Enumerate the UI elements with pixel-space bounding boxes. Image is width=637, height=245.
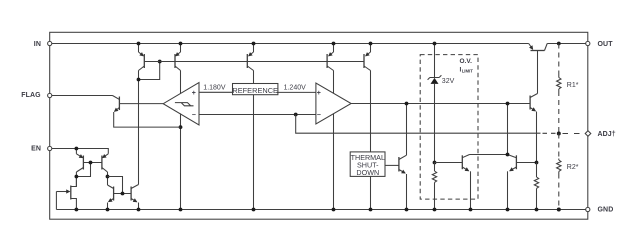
node Q7 collector on output line [405,102,409,106]
node Q2 emitter on rail [179,42,183,46]
wire zener tap to Q10 base [435,162,463,164]
svg-text:FLAG: FLAG [21,92,41,99]
svg-text:R2*: R2* [567,164,579,171]
node Q8 emitter resistor tap [535,161,539,165]
wire Q1 collector / mirror line down [138,71,140,185]
svg-text:−: − [192,112,196,119]
node NPN mirror bases [121,192,125,196]
wire GND rail [56,209,587,211]
wire Q6 emitter down and right to tail [114,112,181,127]
node Q15 emitter at rail [137,208,141,212]
node OUT junction for divider [557,42,561,46]
pin IN [48,41,52,45]
wire Q1 base-collector diode loop [139,62,160,80]
transistor Q15 (NPN bias mirror slave) [130,187,132,201]
resistor R4 (driver emitter) [536,163,538,178]
node Q1 collector junction [137,78,141,82]
node Q1 emitter on rail [137,42,141,46]
transistor Q2 (PNP mirror, feeds comparator) [180,44,182,53]
transistor Q7 (NPN driver clamp) [398,157,400,172]
svg-text:R1*: R1* [567,82,579,89]
svg-text:−: − [317,112,321,119]
wire Q11 base to pass base divider [516,162,536,164]
transistor Q14 (NPN bias mirror master) [113,187,115,201]
node zener top on rail [433,42,437,46]
transistor Q13 (PNP EN mirror slave) [103,154,109,158]
svg-text:32V: 32V [442,78,455,85]
transistor Q8 (NPN output driver) [529,96,531,110]
transistor Q5 (PNP, feeds thermal shutdown) [370,44,372,53]
wire PNP base bus [144,61,363,63]
resistor R2* (external divider, dashed string) [558,134,560,159]
svg-text:ADJ†: ADJ† [598,131,616,138]
wire U1 plus input (1.180V) [199,91,233,93]
wire Q12 base to Q13 base [83,162,102,164]
reference box U3 [233,84,278,95]
transistor Q4 (PNP, feeds error amp) [333,44,335,53]
wire OUT segment [547,43,588,45]
svg-text:DOWN: DOWN [356,168,379,177]
node tail / flag emitter junction [179,125,183,129]
node base loop junction [158,60,162,64]
svg-text:+: + [192,90,196,97]
pin EN [48,146,52,150]
transistor Q9 (PNP pass transistor) [531,50,545,52]
O.V. / I LIMIT dashed box [420,55,478,200]
svg-text:IN: IN [34,41,41,48]
node Q7 emitter at rail [405,208,409,212]
wire U2 output line [351,103,530,105]
node Q11 emitter at rail [506,208,510,212]
wire Q13 collector to NPN mirror bases [108,177,123,194]
node tail at ground rail [179,208,183,212]
node Q4 emitter on rail [332,42,336,46]
transistor Q1 (PNP current mirror master, top left) [138,44,140,53]
node R4 at ground rail [535,208,539,212]
svg-text:EN: EN [31,146,41,153]
transistor Q6 (NPN flag output) [113,96,120,100]
thermal shutdown box U4 [350,152,385,177]
pin ADJ (diamond) [585,131,591,137]
node Q10 emitter at rail [469,208,473,212]
wire IN rail [50,43,529,45]
hysteresis symbol inside U1 [175,103,194,106]
node J1 source at rail [75,208,79,212]
node feedback tap on minus line [294,113,298,117]
wire feedback to ADJ divider [296,115,541,134]
wire thermal box to ground [370,176,372,209]
svg-text:1.180V: 1.180V [203,84,226,91]
transistor Q12 (PNP EN mirror master) [75,149,77,154]
node Q11 collector junction [506,153,510,157]
wire thermal output to Q7 base [385,164,399,166]
wire U1 output to Q6 base [119,103,163,105]
pin FLAG [48,93,52,97]
wire reference supply from Q3 [253,95,255,210]
wire J1 gate with arrow [56,191,69,193]
pin GND [586,207,590,211]
wire NPN mirror base line [114,193,132,195]
node reference ground at rail [252,208,256,212]
wire FLAG lead [50,95,113,97]
svg-text:LIMIT: LIMIT [462,68,474,73]
svg-text:GND: GND [598,207,614,214]
svg-text:+: + [317,90,321,97]
transistor Q3 (PNP, feeds reference) [253,44,255,53]
svg-text:1.240V: 1.240V [284,85,307,92]
node ADJ tap [557,132,561,136]
node thermal ground at rail [369,208,373,212]
node Q12 emitter on EN lead [75,147,79,151]
zener D1 symbol [428,75,442,79]
wire dashed ADJ tap to ADJ pin [563,133,585,135]
transistor Q10 (NPN current limit) [461,155,463,169]
node Q12 collector / JFET drain [75,175,79,179]
transistor J1 (JFET startup) [70,186,72,200]
svg-text:O.V.: O.V. [460,58,473,65]
pin OUT [586,41,590,45]
wire U1 tail to ground [180,113,182,209]
resistor R1* (external divider, dashed string) [558,44,560,76]
wire U1 minus input line to error amp minus [199,114,316,116]
node U2 tail at rail [332,208,336,212]
node Q11 base tap on output line [506,102,510,106]
zener D1 32V line [434,44,436,78]
node Q3 emitter on rail [252,42,256,46]
op-amp U1 (comparator with hysteresis, points left) [163,83,199,125]
svg-text:REFERENCE: REFERENCE [232,86,278,95]
transistor Q11 (NPN overvoltage clamp) [515,155,517,169]
wire U2 plus input (1.240V) [277,91,316,93]
node zener line emitter-resistor tap [433,161,437,165]
border frame of IC block [50,32,588,219]
svg-text:OUT: OUT [598,41,614,48]
resistor R3 (current limit sense) [434,163,436,172]
wire EN lead [50,149,109,154]
node Q13 collector junction [106,175,110,179]
node Q5 emitter on rail [369,42,373,46]
node R3 at ground rail [433,208,437,212]
op-amp U2 (error amplifier, points right) [316,83,351,124]
node EN mirror bases [89,161,93,165]
wire Q12 diode loop [76,163,90,177]
wire U2 tail to ground [333,114,335,210]
node Q14 emitter at rail [106,208,110,212]
node R2 at ground rail [557,208,561,212]
